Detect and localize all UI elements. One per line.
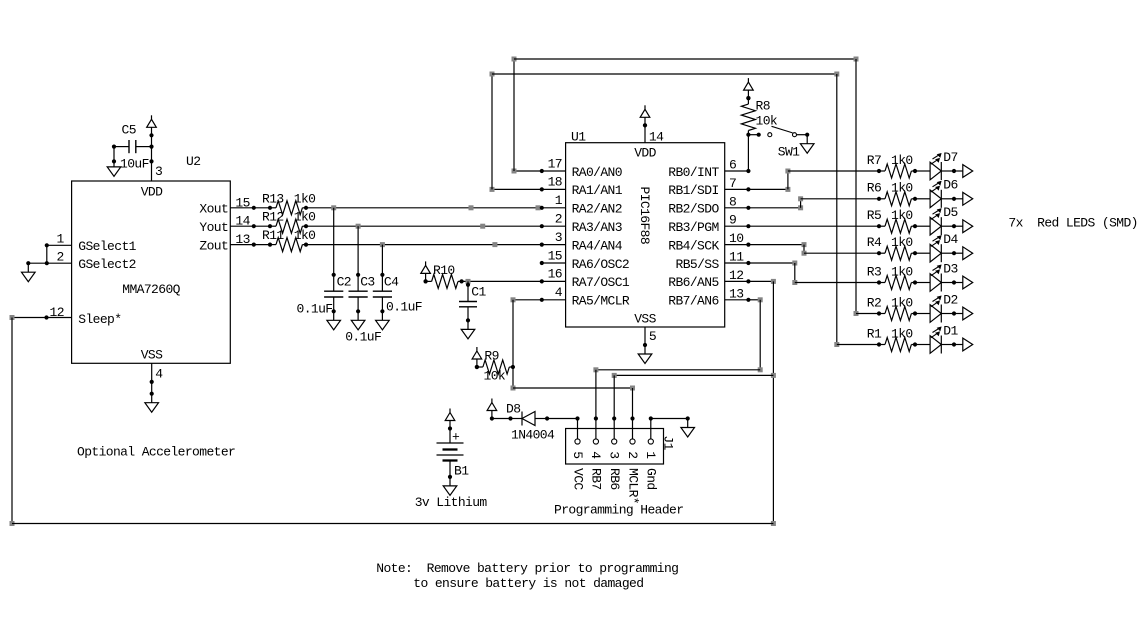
svg-text:RB6: RB6 — [607, 468, 622, 490]
wire top bus RA0 to D2 column — [514, 58, 856, 60]
resistor R1 — [877, 342, 881, 346]
ground below C1 — [467, 320, 469, 329]
svg-text:1k0: 1k0 — [294, 191, 316, 206]
svg-text:RA7/OSC1: RA7/OSC1 — [572, 275, 630, 290]
svg-text:14: 14 — [235, 214, 250, 229]
svg-text:+: + — [452, 430, 460, 445]
svg-text:RB5/SS: RB5/SS — [676, 257, 720, 272]
wire to R7 — [788, 170, 879, 172]
U1 pin 5 stub — [644, 327, 646, 345]
svg-text:D8: D8 — [506, 402, 520, 417]
svg-text:12: 12 — [50, 305, 64, 320]
svg-text:10: 10 — [729, 231, 743, 246]
svg-text:RA0/AN0: RA0/AN0 — [572, 165, 622, 180]
U1 pin 14 stub — [644, 125, 646, 142]
wire R10 to PIC RA7/OSC1 — [462, 280, 542, 282]
svg-text:J1: J1 — [660, 435, 675, 450]
svg-text:2: 2 — [555, 212, 562, 227]
wire D1 column down — [836, 74, 838, 345]
J1 pin 3 circle — [612, 439, 617, 444]
svg-text:VDD: VDD — [634, 146, 656, 161]
svg-text:13: 13 — [235, 232, 249, 247]
svg-text:2: 2 — [57, 249, 64, 264]
svg-text:1k0: 1k0 — [891, 153, 913, 168]
svg-text:R8: R8 — [756, 98, 770, 113]
svg-text:D4: D4 — [943, 232, 958, 247]
wire C4 tap down — [381, 245, 383, 275]
wire to R4 — [804, 252, 879, 254]
wire to R6 — [801, 198, 879, 200]
wire C3 tap down — [357, 226, 359, 275]
svg-text:R4: R4 — [867, 235, 882, 250]
svg-text:RA1/AN1: RA1/AN1 — [572, 183, 623, 198]
svg-text:D7: D7 — [943, 150, 957, 165]
VDD arrow above battery — [448, 426, 452, 430]
wire to R2 — [856, 313, 879, 315]
VDD arrow above U1 pin 14 — [643, 123, 647, 127]
wire R13 to PIC RA2 — [306, 207, 542, 209]
svg-text:R6: R6 — [867, 181, 881, 196]
wire battery to ground — [449, 461, 451, 477]
ground at D6 — [963, 192, 973, 205]
capacitor C2 — [332, 273, 336, 277]
svg-text:Programming Header: Programming Header — [554, 502, 683, 517]
ground below battery — [449, 477, 451, 486]
svg-text:GSelect1: GSelect1 — [78, 239, 136, 254]
wire GSelect1 down to GSelect2 — [46, 245, 48, 263]
U1 pin 1 stub RA2/AN2 — [542, 207, 566, 209]
U1 pin 6 stub RB0/INT — [725, 170, 749, 172]
U2 pin 12 stub — [47, 317, 72, 319]
svg-text:10uF: 10uF — [120, 157, 149, 172]
svg-text:9: 9 — [729, 213, 736, 228]
wire VDD arrow to battery — [449, 429, 451, 444]
U1 pin 16 stub RA7/OSC1 — [542, 280, 566, 282]
svg-text:MCLR*: MCLR* — [625, 468, 640, 504]
svg-text:D6: D6 — [943, 178, 957, 193]
U1 pin 7 stub RB1/SDI — [725, 188, 749, 190]
svg-text:12: 12 — [729, 268, 743, 283]
ground at D4 — [963, 247, 973, 260]
wire R11 to PIC RA4 — [306, 244, 542, 246]
svg-text:C4: C4 — [384, 274, 399, 289]
wire RB2 jog to D6 row — [748, 207, 800, 209]
svg-text:D1: D1 — [943, 323, 958, 338]
svg-text:R5: R5 — [867, 208, 881, 223]
svg-text:13: 13 — [729, 286, 743, 301]
svg-text:R2: R2 — [867, 295, 881, 310]
svg-text:RB3/PGM: RB3/PGM — [668, 220, 718, 235]
VDD arrow at R10 — [424, 279, 428, 283]
resistor R4 — [877, 251, 881, 255]
svg-text:RB2/SDO: RB2/SDO — [668, 202, 719, 217]
U2 pin 1 stub — [47, 244, 72, 246]
svg-text:PIC16F88: PIC16F88 — [637, 187, 652, 245]
ground at D5 — [963, 220, 973, 233]
svg-text:RB4/SCK: RB4/SCK — [668, 238, 719, 253]
svg-text:3: 3 — [607, 451, 622, 458]
svg-text:RB1/SDI: RB1/SDI — [668, 183, 718, 198]
J1 pin 2 circle — [630, 439, 635, 444]
wire RA1 to top bus — [492, 188, 542, 190]
svg-text:1: 1 — [57, 232, 65, 247]
svg-text:Gnd: Gnd — [644, 468, 659, 490]
wire Sleep* to left edge — [12, 317, 47, 319]
resistor R13 — [268, 206, 272, 210]
programming header J1 body — [566, 429, 664, 465]
svg-text:11: 11 — [729, 250, 744, 265]
ground at D2 — [963, 307, 973, 320]
wire R5 to D5 — [915, 225, 930, 227]
svg-text:R3: R3 — [867, 264, 881, 279]
wire header pin 1 to ground — [649, 416, 653, 420]
svg-text:R13: R13 — [262, 191, 284, 206]
ground below C3 — [357, 311, 359, 320]
svg-text:8: 8 — [729, 194, 736, 209]
svg-text:18: 18 — [548, 175, 562, 190]
svg-text:RB6/AN5: RB6/AN5 — [668, 275, 718, 290]
svg-text:U2: U2 — [186, 154, 200, 169]
svg-text:RB0/INT: RB0/INT — [668, 165, 719, 180]
ground below C2 — [333, 311, 335, 320]
node Yout wire to R12 — [254, 225, 270, 227]
svg-text:1k0: 1k0 — [294, 228, 316, 243]
svg-text:C3: C3 — [360, 274, 374, 289]
U2 pin 13 stub — [230, 244, 254, 246]
svg-text:1k0: 1k0 — [891, 181, 913, 196]
wire D3 cathode to ground — [941, 282, 954, 284]
wire RA5/MCLR to left — [513, 299, 542, 301]
svg-text:Sleep*: Sleep* — [78, 312, 121, 327]
svg-text:VSS: VSS — [141, 347, 163, 362]
U1 pin 18 stub RA1/AN1 — [542, 188, 566, 190]
U2 pin 14 stub — [230, 225, 254, 227]
svg-text:VDD: VDD — [141, 185, 163, 200]
wire vertical RA1 riser — [491, 74, 493, 189]
svg-text:15: 15 — [548, 248, 562, 263]
wire top bus RA1 to D1 column — [492, 73, 837, 75]
U1 pin 4 stub RA5/MCLR — [542, 299, 566, 301]
wire D2 column down — [855, 59, 857, 314]
wire RB1 jog to D7 row — [748, 188, 788, 190]
resistor R12 — [268, 224, 272, 228]
svg-text:10k: 10k — [484, 369, 506, 384]
svg-text:R10: R10 — [433, 263, 455, 278]
capacitor C5 — [136, 146, 152, 148]
svg-text:MMA7260Q: MMA7260Q — [122, 282, 180, 297]
svg-text:17: 17 — [548, 156, 562, 171]
LED D7 — [930, 162, 941, 180]
wire R12 to PIC RA3 — [306, 225, 542, 227]
ground below U2 pin 4 — [151, 394, 153, 403]
svg-text:Xout: Xout — [199, 202, 228, 217]
svg-text:1: 1 — [643, 451, 658, 459]
wire VDD to D8 anode — [492, 418, 511, 420]
svg-text:0.1uF: 0.1uF — [297, 302, 333, 317]
svg-text:1: 1 — [555, 193, 563, 208]
VDD arrow at D8 — [490, 416, 494, 420]
U1 pin 10 stub RB4/SCK — [725, 244, 749, 246]
svg-text:5: 5 — [649, 329, 656, 344]
diode D8 — [511, 418, 523, 420]
wire R3 to D3 — [915, 282, 930, 284]
capacitor C3 — [356, 273, 360, 277]
svg-text:RA3/AN3: RA3/AN3 — [572, 220, 622, 235]
U1 pin 17 stub RA0/AN0 — [542, 170, 566, 172]
switch SW1 — [768, 133, 772, 137]
wire to R3 — [795, 282, 879, 284]
svg-text:SW1: SW1 — [778, 144, 800, 159]
U1 pin 3 stub RA4/AN4 — [542, 244, 566, 246]
VDD arrow above U2 pin 3 — [149, 133, 153, 137]
svg-text:3v Lithium: 3v Lithium — [415, 495, 488, 510]
wire R8 to SW1 — [748, 134, 758, 136]
svg-text:D2: D2 — [943, 292, 957, 307]
svg-text:4: 4 — [588, 451, 603, 459]
wire C5 left leg down — [113, 147, 115, 162]
U1 pin 8 stub RB2/SDO — [725, 207, 749, 209]
svg-text:RB7/AN6: RB7/AN6 — [668, 294, 718, 309]
resistor R3 — [877, 280, 881, 284]
resistor R11 — [268, 243, 272, 247]
svg-text:RA6/OSC2: RA6/OSC2 — [572, 257, 630, 272]
wire RB6 to junction — [748, 280, 773, 282]
resistor R6 — [877, 197, 881, 201]
svg-text:Yout: Yout — [199, 220, 228, 235]
wire D2 cathode to ground — [941, 313, 954, 315]
svg-text:GSelect2: GSelect2 — [78, 257, 136, 272]
svg-text:5: 5 — [570, 451, 585, 458]
node Xout wire to R13 — [254, 207, 270, 209]
ground below C4 — [381, 311, 383, 320]
svg-text:R7: R7 — [867, 153, 881, 168]
svg-text:RA4/AN4: RA4/AN4 — [572, 238, 623, 253]
resistor R7 — [877, 169, 881, 173]
wire bottom bus Sleep* to RB6 column — [12, 523, 773, 525]
wire RB4 jog to D4 row — [748, 244, 804, 246]
svg-text:Zout: Zout — [199, 238, 228, 253]
LED D1 — [930, 336, 941, 354]
wire RB7 branch to header pin 4 — [596, 369, 760, 371]
U1 pin 11 stub RB5/SS — [725, 262, 749, 264]
svg-text:2: 2 — [625, 451, 640, 458]
ground at D7 — [963, 165, 973, 178]
U1 pin 15 stub RA6/OSC2 — [542, 262, 566, 264]
wire R4 to D4 — [915, 252, 930, 254]
accelerometer U2 body — [72, 181, 231, 363]
svg-text:to ensure battery is not damag: to ensure battery is not damaged — [413, 576, 643, 591]
LED D4 — [930, 244, 941, 262]
wire pin4 to ground — [151, 382, 153, 394]
wire RB6 branch to header pin 3 — [614, 374, 773, 376]
svg-text:Optional Accelerometer: Optional Accelerometer — [77, 445, 235, 460]
svg-text:D5: D5 — [943, 205, 957, 220]
U1 pin 9 stub RB3/PGM — [725, 225, 749, 227]
wire vertical RA0 riser — [513, 59, 515, 171]
wire RB7 column down — [759, 300, 761, 370]
wire RB3 to R5 — [748, 225, 879, 227]
svg-text:Note: Remove battery prior to: Note: Remove battery prior to programmin… — [376, 561, 678, 576]
svg-text:R11: R11 — [262, 228, 284, 243]
svg-text:R1: R1 — [867, 326, 882, 341]
resistor R9 — [475, 365, 479, 369]
svg-text:7x Red LEDS (SMD): 7x Red LEDS (SMD) — [1008, 216, 1137, 231]
svg-text:10k: 10k — [756, 113, 778, 128]
resistor R2 — [877, 311, 881, 315]
PIC microcontroller U1 body — [566, 143, 725, 327]
svg-text:D3: D3 — [943, 261, 957, 276]
wire D5 cathode to ground — [941, 225, 954, 227]
resistor R10 — [424, 279, 428, 283]
U2 pin 2 stub — [47, 262, 72, 264]
resistor R8 — [746, 96, 750, 100]
svg-text:7: 7 — [729, 176, 736, 191]
svg-text:1k0: 1k0 — [891, 208, 913, 223]
U2 pin 4 stub — [151, 363, 153, 382]
wire C2 tap down — [333, 208, 335, 275]
svg-text:1k0: 1k0 — [891, 295, 913, 310]
U1 pin 12 stub RB6/AN5 — [725, 280, 749, 282]
svg-text:B1: B1 — [454, 464, 469, 479]
ground at SW1 — [806, 135, 808, 144]
ground at header pin 1 — [687, 419, 689, 428]
U2 pin 3 stub — [151, 161, 153, 181]
svg-text:1k0: 1k0 — [891, 264, 913, 279]
wire RB7 to junction — [748, 299, 760, 301]
wire R6 to D6 — [915, 198, 930, 200]
capacitor C1 — [466, 283, 470, 287]
wire to R1 — [837, 344, 879, 346]
VDD arrow above R8 — [746, 96, 750, 100]
LED D3 — [930, 274, 941, 292]
svg-text:15: 15 — [235, 195, 249, 210]
LED D6 — [930, 190, 941, 208]
svg-text:0.1uF: 0.1uF — [345, 330, 381, 345]
battery B1 — [437, 442, 464, 444]
svg-text:RB7: RB7 — [589, 468, 604, 490]
wire R2 to D2 — [915, 313, 930, 315]
svg-text:1N4004: 1N4004 — [511, 428, 555, 443]
capacitor C4 — [380, 273, 384, 277]
svg-text:1k0: 1k0 — [891, 235, 913, 250]
svg-text:U1: U1 — [571, 129, 586, 144]
svg-text:RA5/MCLR: RA5/MCLR — [572, 294, 630, 309]
LED D2 — [930, 305, 941, 323]
wire C1 tap down — [467, 281, 469, 284]
LED D5 — [930, 217, 941, 235]
wire R7 to D7 — [915, 170, 930, 172]
svg-text:RA2/AN2: RA2/AN2 — [572, 202, 622, 217]
svg-text:1k0: 1k0 — [891, 326, 913, 341]
svg-text:C5: C5 — [122, 123, 136, 138]
svg-text:R9: R9 — [484, 349, 498, 364]
U1 pin 13 stub RB7/AN6 — [725, 299, 749, 301]
wire left edge down — [11, 318, 13, 524]
wire SW1 to ground — [797, 134, 808, 136]
wire RB6 column down to bottom bus — [772, 281, 774, 523]
J1 pin 1 circle — [648, 439, 653, 444]
U1 pin 2 stub RA3/AN3 — [542, 225, 566, 227]
svg-text:VCC: VCC — [570, 468, 585, 490]
wire D6 cathode to ground — [941, 198, 954, 200]
wire MCLR column down — [512, 300, 514, 388]
wire VDD to U2 pin 3 — [151, 135, 153, 161]
VDD arrow at R9 — [475, 365, 479, 369]
wire MCLR to header pin 2 — [513, 387, 633, 389]
svg-text:C1: C1 — [471, 285, 486, 300]
wire D7 cathode to ground — [941, 170, 954, 172]
svg-text:R12: R12 — [262, 210, 284, 225]
ground below C5 — [113, 161, 115, 167]
svg-text:VSS: VSS — [634, 312, 656, 327]
svg-text:0.1uF: 0.1uF — [386, 300, 422, 315]
svg-text:4: 4 — [555, 285, 563, 300]
ground at D1 — [963, 338, 973, 351]
ground at D3 — [963, 276, 973, 289]
wire GSelect2 to ground — [28, 262, 47, 264]
node Zout wire to R11 — [254, 244, 270, 246]
wire RB0 up to R8 and SW1 — [747, 135, 749, 171]
svg-text:1k0: 1k0 — [294, 210, 316, 225]
wire RA0 to top bus — [514, 170, 542, 172]
wire D4 cathode to ground — [941, 252, 954, 254]
svg-text:6: 6 — [729, 158, 736, 173]
svg-text:14: 14 — [649, 129, 664, 144]
J1 pin 4 circle — [593, 439, 598, 444]
svg-text:3: 3 — [555, 230, 562, 245]
ground below U1 pin 5 — [644, 345, 646, 354]
wire D1 cathode to ground — [941, 344, 954, 346]
svg-text:C2: C2 — [337, 274, 351, 289]
wire D8 to header pin 5 — [547, 418, 577, 420]
wire R1 to D1 — [915, 344, 930, 346]
svg-text:4: 4 — [155, 367, 163, 382]
svg-text:3: 3 — [155, 164, 162, 179]
U2 pin 15 stub — [230, 207, 254, 209]
J1 pin 5 circle — [575, 439, 580, 444]
resistor R5 — [877, 224, 881, 228]
ground at GSelect pins — [27, 263, 29, 272]
wire RB5 jog to D3 row — [748, 262, 794, 264]
svg-text:16: 16 — [548, 267, 562, 282]
